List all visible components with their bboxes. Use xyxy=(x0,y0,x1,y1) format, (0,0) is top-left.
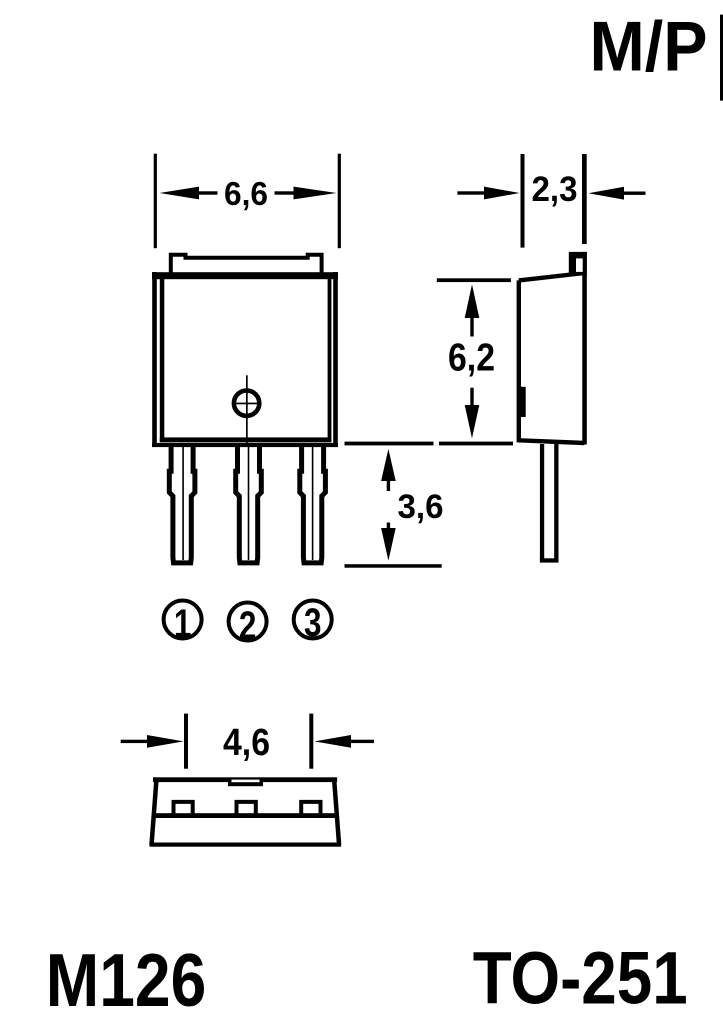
pin 3 circle xyxy=(294,601,332,639)
front view body outer bottom edge xyxy=(152,443,338,447)
dimension 2,3 left arrow xyxy=(457,191,486,194)
front view body inner bottom line xyxy=(160,437,332,442)
lead 2 xyxy=(236,447,262,563)
svg-text:3,6: 3,6 xyxy=(398,488,444,526)
bottom view right edge xyxy=(334,779,339,845)
side view body outline xyxy=(519,273,585,443)
hole centerline horizontal xyxy=(232,403,262,405)
side view lead bottom cap xyxy=(540,558,559,562)
bottom view lead stub 3 xyxy=(301,802,320,816)
dimension 4,6 extension line right xyxy=(309,714,313,769)
front view body outer right edge xyxy=(333,272,338,447)
side view tab inner window xyxy=(576,258,583,272)
side view tab xyxy=(569,252,587,276)
svg-text:3: 3 xyxy=(304,601,322,645)
lead 2 seam xyxy=(248,447,250,560)
logo divider line xyxy=(720,15,723,101)
pin 2 circle xyxy=(229,603,267,641)
front view body outer left edge xyxy=(152,272,157,447)
dimension 6,6 left arrow xyxy=(160,187,200,200)
mounting hole xyxy=(234,391,259,416)
dimension 2,3 right arrow xyxy=(588,187,624,200)
dimension 2,3 extension line left xyxy=(521,154,525,248)
dimension 3,6 down arrow xyxy=(387,523,390,531)
bottom view lead stub 1 xyxy=(174,802,193,816)
svg-text:6,6: 6,6 xyxy=(224,175,268,212)
bottom view divider line xyxy=(154,813,338,818)
svg-text:6,2: 6,2 xyxy=(448,337,495,380)
svg-text:1: 1 xyxy=(174,602,192,646)
dimension 6,2 extension line top xyxy=(437,278,511,282)
dimension 2,3 extension line right xyxy=(582,154,587,244)
front view tab xyxy=(171,255,322,276)
lead 3 seam xyxy=(312,447,314,560)
svg-text:4,6: 4,6 xyxy=(223,722,270,764)
lead 1 seam xyxy=(182,447,184,560)
dimension 3,6 extension line bottom xyxy=(345,564,442,568)
bottom view top edge xyxy=(153,777,337,782)
svg-text:TO-251: TO-251 xyxy=(473,937,688,1020)
shared extension line at body bottom (6,2 / 3,6) xyxy=(439,442,513,446)
dimension 4,6 left arrow xyxy=(121,740,152,743)
dimension 4,6 right arrow xyxy=(315,735,352,748)
dimension 6,2 down arrow xyxy=(470,388,473,406)
svg-text:M/P: M/P xyxy=(590,7,708,86)
hole centerline vertical xyxy=(246,375,248,447)
svg-text:M126: M126 xyxy=(46,938,207,1022)
dimension 4,6 extension line left xyxy=(184,714,188,769)
side view lead left edge xyxy=(540,444,544,561)
front view body inner right line xyxy=(328,278,332,442)
pin 1 circle xyxy=(164,601,202,639)
side view gate mark xyxy=(518,387,526,417)
svg-text:2: 2 xyxy=(239,604,257,648)
side view lead right edge xyxy=(554,444,558,561)
front view body outer top edge xyxy=(152,272,338,279)
dimension 6,2 up arrow xyxy=(465,284,480,318)
side view right edge with tab edge xyxy=(582,252,587,445)
svg-text:2,3: 2,3 xyxy=(532,169,578,209)
front view body inner left line xyxy=(160,278,165,442)
dimension 3,6 up arrow xyxy=(381,449,396,481)
dimension 6,6 extension line left xyxy=(154,154,157,249)
lead 3 xyxy=(300,447,326,563)
bottom view bottom edge xyxy=(150,843,342,847)
bottom view lead stub 2 xyxy=(237,802,256,816)
dimension 6,6 right arrow xyxy=(294,187,337,200)
dimension 6,6 extension line right xyxy=(338,154,341,249)
bottom view left edge xyxy=(152,779,157,845)
dimension 3,6 extension line top xyxy=(345,442,434,446)
bottom view top notch xyxy=(228,782,263,786)
lead 1 xyxy=(169,447,195,563)
